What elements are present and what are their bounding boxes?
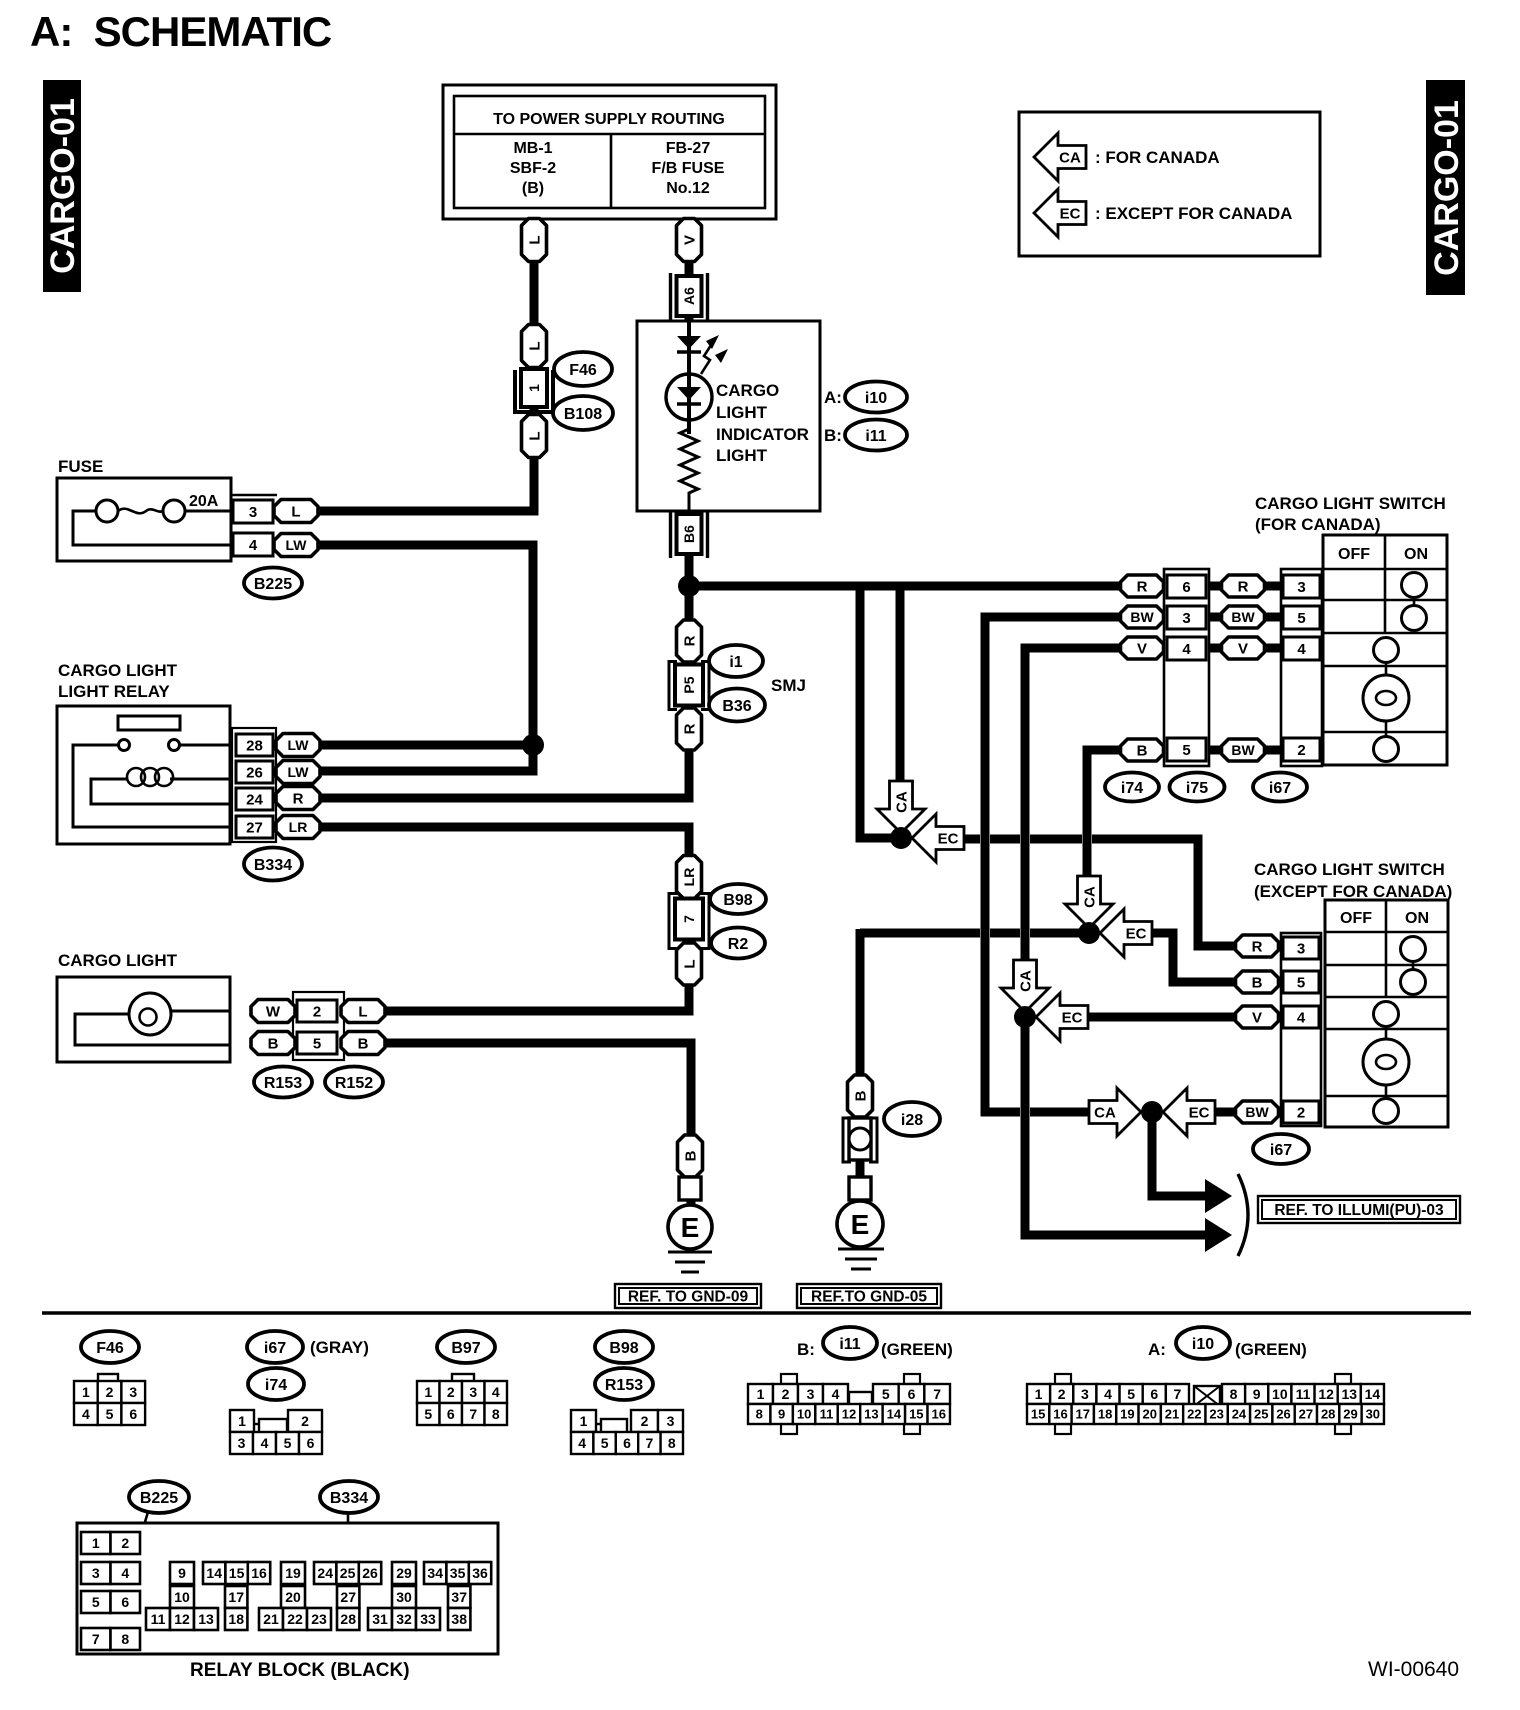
svg-text:11: 11: [151, 1611, 166, 1627]
svg-text:LW: LW: [286, 537, 308, 553]
svg-text:CARGO LIGHT: CARGO LIGHT: [58, 661, 178, 680]
wire LW fuse to relay pins 28/26: [316, 545, 533, 771]
svg-text:8: 8: [1230, 1386, 1238, 1402]
svg-text:CARGO LIGHT SWITCH: CARGO LIGHT SWITCH: [1255, 494, 1446, 513]
wire L from power supply down to fuse: [316, 219, 534, 511]
wire canada switch BW to CA arrow seg2: [1030, 1108, 1097, 1117]
svg-text:L: L: [291, 503, 300, 520]
ref box GND-09: [615, 1284, 761, 1308]
capsule B switch2: [1236, 971, 1279, 993]
svg-text:28: 28: [246, 737, 263, 754]
fuse element 20A: [73, 493, 231, 545]
svg-text:19: 19: [1120, 1407, 1134, 1422]
svg-text:6: 6: [129, 1406, 137, 1422]
svg-text:9: 9: [1253, 1386, 1261, 1402]
capsule L at fuse: [274, 500, 318, 523]
connector B98 pinout: [571, 1410, 683, 1454]
CA arrow at node C: [1001, 960, 1049, 1012]
svg-text:(B): (B): [522, 180, 544, 197]
svg-text:: EXCEPT FOR CANADA: : EXCEPT FOR CANADA: [1095, 204, 1292, 223]
svg-text:R: R: [293, 790, 304, 807]
oval i74 legend: [248, 1368, 304, 1400]
svg-text:14: 14: [206, 1565, 222, 1581]
oval B334 ref: [244, 848, 302, 881]
wire node C down to illumi arrow 2: [1025, 1017, 1205, 1235]
wire node B EC to except-canada switch R seg4: [1092, 839, 1237, 946]
svg-text:i67: i67: [264, 1340, 286, 1357]
svg-text:SBF-2: SBF-2: [510, 160, 556, 177]
svg-text:i28: i28: [901, 1112, 923, 1129]
connector capsule R above SMJ: [677, 620, 702, 662]
svg-text:10: 10: [1272, 1386, 1288, 1402]
svg-text:i10: i10: [865, 390, 887, 407]
svg-text:R: R: [681, 635, 698, 646]
svg-text:26: 26: [362, 1565, 378, 1581]
cargo light bulb and wiring: [75, 993, 231, 1045]
svg-text:20: 20: [1142, 1407, 1156, 1422]
svg-text:i11: i11: [839, 1336, 860, 1353]
svg-text:5: 5: [882, 1386, 890, 1402]
oval i10 ref: [845, 382, 907, 413]
svg-text:2: 2: [447, 1384, 455, 1400]
wire node E EC to except-canada switch BW: [1213, 1108, 1237, 1117]
svg-text:F/B FUSE: F/B FUSE: [652, 160, 725, 177]
svg-text:CARGO LIGHT SWITCH: CARGO LIGHT SWITCH: [1254, 860, 1445, 879]
i67 pin column frame: [1281, 569, 1322, 766]
stub wires i75 to middle capsules: [1205, 582, 1225, 591]
wire node C EC to except-canada switch V: [1088, 1013, 1237, 1022]
EC arrow at node C: [1036, 993, 1088, 1041]
wire bus branch through CA arrow to node B: [896, 586, 905, 788]
svg-text:2: 2: [313, 1003, 321, 1020]
connector capsule L below F46: [522, 415, 547, 458]
oval F46 legend: [81, 1331, 139, 1363]
svg-text:(GRAY): (GRAY): [310, 1338, 369, 1357]
svg-text:A6: A6: [681, 287, 697, 305]
capsule R relay 24: [276, 787, 320, 810]
svg-text:No.12: No.12: [666, 180, 710, 197]
relay block cells: [81, 1532, 491, 1650]
svg-text:18: 18: [228, 1611, 244, 1627]
line B334 to relay block: [347, 1513, 350, 1562]
svg-text:CA: CA: [1018, 970, 1035, 992]
svg-text:4: 4: [82, 1406, 90, 1422]
svg-text:6: 6: [121, 1594, 129, 1610]
svg-text:i74: i74: [1121, 780, 1143, 797]
svg-text:R: R: [681, 723, 698, 734]
svg-text:SMJ: SMJ: [771, 676, 806, 695]
i75 pin 4: [1167, 637, 1206, 660]
svg-text:CA: CA: [1094, 1105, 1116, 1122]
svg-text:CARGO LIGHT: CARGO LIGHT: [58, 951, 178, 970]
capsule B switch1: [1121, 739, 1164, 761]
svg-text:7: 7: [92, 1631, 100, 1647]
oval i67 ref switch2: [1253, 1134, 1309, 1164]
svg-text:12: 12: [1318, 1386, 1334, 1402]
wire node D left toward ground GND-05 seg3: [1030, 929, 1083, 938]
svg-text:R: R: [1137, 578, 1148, 595]
svg-text:CA: CA: [894, 791, 911, 813]
svg-text:(FOR CANADA): (FOR CANADA): [1255, 515, 1381, 534]
svg-text:INDICATOR: INDICATOR: [716, 425, 809, 444]
svg-text:1: 1: [92, 1535, 100, 1551]
svg-text:EC: EC: [1060, 206, 1081, 223]
svg-text:6: 6: [1182, 579, 1190, 596]
svg-text:4: 4: [261, 1435, 269, 1451]
svg-text:R: R: [1238, 578, 1249, 595]
svg-text:15: 15: [229, 1565, 245, 1581]
svg-text:17: 17: [1076, 1407, 1090, 1422]
svg-text:CA: CA: [1082, 886, 1099, 908]
svg-text:11: 11: [820, 1407, 834, 1422]
svg-text:3: 3: [1297, 579, 1305, 596]
ground connector box GND-05: [849, 1177, 871, 1200]
wire node B EC to except-canada switch R seg3: [1030, 835, 1082, 844]
junction node E: [1141, 1101, 1163, 1123]
ground connector box GND-09: [679, 1177, 701, 1200]
oval R2 ref: [711, 928, 765, 959]
svg-text:L: L: [526, 235, 543, 244]
capsule BW switch2: [1236, 1101, 1279, 1123]
svg-text:(GREEN): (GREEN): [881, 1340, 953, 1359]
svg-text:1: 1: [580, 1413, 588, 1429]
relay pin 26: [236, 761, 273, 783]
oval i75 ref: [1170, 773, 1225, 802]
wire node E down to illumi arrow 1: [1152, 1112, 1205, 1196]
svg-text:i75: i75: [1186, 780, 1208, 797]
connector capsule L to cargo light: [677, 943, 702, 985]
capsule B cargo light left: [251, 1032, 295, 1055]
fuse pin 3: [233, 500, 273, 523]
oval B334 legend: [320, 1481, 378, 1513]
svg-text:7: 7: [1174, 1386, 1182, 1402]
svg-text:LR: LR: [289, 819, 308, 835]
svg-text:B108: B108: [564, 406, 602, 423]
svg-text:BW: BW: [1245, 1104, 1269, 1120]
svg-text:1: 1: [526, 384, 542, 392]
svg-text:B334: B334: [254, 857, 292, 874]
svg-text:LR: LR: [681, 868, 697, 887]
svg-text:23: 23: [1209, 1407, 1223, 1422]
oval i67 ref: [1253, 773, 1307, 802]
svg-text:27: 27: [1299, 1407, 1313, 1422]
svg-text:6: 6: [623, 1435, 631, 1451]
svg-text:R2: R2: [728, 936, 749, 953]
svg-text:EC: EC: [1126, 926, 1147, 943]
svg-text:29: 29: [396, 1565, 412, 1581]
junction node B: [890, 827, 912, 849]
svg-text:5: 5: [424, 1406, 432, 1422]
svg-text:4: 4: [249, 537, 258, 554]
svg-text:P5: P5: [681, 676, 697, 693]
svg-text:24: 24: [317, 1565, 333, 1581]
svg-text:27: 27: [340, 1589, 356, 1605]
switch2 pin 4: [1283, 1006, 1319, 1028]
svg-text:F46: F46: [569, 362, 597, 379]
svg-text:14: 14: [1365, 1386, 1381, 1402]
svg-text:21: 21: [1165, 1407, 1179, 1422]
svg-text:8: 8: [121, 1631, 129, 1647]
svg-text:CA: CA: [1059, 150, 1081, 167]
svg-text:24: 24: [246, 791, 263, 808]
svg-text:RELAY BLOCK (BLACK): RELAY BLOCK (BLACK): [190, 1660, 410, 1681]
svg-text:34: 34: [427, 1565, 443, 1581]
svg-text:L: L: [526, 341, 543, 350]
relay coil: [127, 768, 145, 786]
svg-text:B98: B98: [609, 1340, 638, 1357]
svg-text:REF. TO GND-09: REF. TO GND-09: [628, 1289, 749, 1306]
ground connector i28: [843, 1118, 877, 1162]
svg-text:1: 1: [238, 1413, 246, 1429]
svg-text:BW: BW: [1231, 742, 1255, 758]
svg-text:B36: B36: [722, 698, 751, 715]
svg-text:TO POWER SUPPLY ROUTING: TO POWER SUPPLY ROUTING: [493, 111, 725, 128]
connector B6: [671, 511, 708, 558]
svg-text:V: V: [1137, 640, 1147, 657]
svg-text:14: 14: [887, 1407, 902, 1422]
oval B36: [709, 689, 765, 722]
svg-text:16: 16: [251, 1565, 267, 1581]
svg-text:5: 5: [313, 1035, 321, 1052]
oval i11 ref: [845, 420, 907, 451]
i75 pin column frame: [1164, 569, 1209, 766]
connector capsule L above F46: [522, 325, 547, 368]
ground symbol E GND-05: [837, 1201, 884, 1269]
svg-text:31: 31: [372, 1611, 388, 1627]
svg-text:B:: B:: [824, 426, 842, 445]
svg-text:36: 36: [472, 1565, 488, 1581]
wire indicator box to B6 to junction node A: [685, 508, 694, 586]
svg-text:13: 13: [198, 1611, 214, 1627]
svg-text:: FOR CANADA: : FOR CANADA: [1095, 148, 1220, 167]
junction node C: [1014, 1006, 1036, 1028]
indicator resistor: [680, 420, 698, 511]
oval B108: [553, 396, 613, 430]
svg-text:A:: A:: [824, 388, 842, 407]
svg-text:3: 3: [92, 1565, 100, 1581]
illumi paren: [1238, 1174, 1248, 1256]
svg-text:8: 8: [756, 1407, 763, 1422]
svg-text:CARGO-01: CARGO-01: [1428, 100, 1466, 276]
svg-text:1: 1: [757, 1386, 765, 1402]
svg-text:BW: BW: [1231, 609, 1255, 625]
svg-text:i11: i11: [865, 428, 886, 445]
fuse box: [57, 478, 231, 561]
capsule B ground GND-09: [678, 1135, 703, 1177]
wire canada switch B down to CA arrow: [1087, 750, 1122, 879]
oval B225 legend: [129, 1481, 189, 1513]
capsule BW switch1 right: [1222, 606, 1265, 628]
svg-text:22: 22: [1187, 1407, 1201, 1422]
svg-text:3: 3: [249, 504, 257, 521]
svg-text:8: 8: [668, 1435, 676, 1451]
svg-text:3: 3: [469, 1384, 477, 1400]
oval i1: [709, 645, 763, 677]
svg-text:3: 3: [238, 1435, 246, 1451]
illumi arrowhead 2: [1205, 1218, 1232, 1252]
svg-text:9: 9: [778, 1407, 785, 1422]
connector i10 pinout: [1027, 1374, 1384, 1434]
svg-text:28: 28: [340, 1611, 356, 1627]
SMJ connector P5: [669, 662, 709, 710]
oval i74 ref: [1105, 773, 1159, 802]
svg-text:A:: A:: [1148, 1340, 1166, 1359]
wire node B EC to except-canada switch R seg2: [990, 835, 1020, 844]
svg-text:L: L: [526, 431, 543, 440]
wire bus branch down to CA/EC node B: [860, 586, 895, 838]
wire relay pin 27 LR down to cargo light connector: [318, 827, 689, 1011]
connector F46 pinout: [74, 1374, 145, 1425]
capsule V switch2: [1236, 1006, 1279, 1028]
svg-text:5: 5: [284, 1435, 292, 1451]
svg-text:15: 15: [909, 1407, 923, 1422]
svg-text:i74: i74: [265, 1377, 287, 1394]
svg-text:5: 5: [1297, 974, 1305, 991]
svg-text:R153: R153: [605, 1377, 643, 1394]
svg-text:B: B: [852, 1090, 869, 1101]
svg-text:5: 5: [106, 1406, 114, 1422]
EC arrow at node B: [912, 814, 964, 862]
svg-text:R153: R153: [264, 1075, 302, 1092]
relay pin 27: [236, 816, 273, 838]
LED diode D1: [677, 336, 701, 352]
svg-text:12: 12: [842, 1407, 856, 1422]
capsule LW at fuse: [274, 534, 318, 557]
svg-text:3: 3: [1297, 940, 1305, 957]
oval B97 legend: [437, 1331, 495, 1363]
line B225 to relay block: [133, 1512, 148, 1562]
svg-text:2: 2: [782, 1386, 790, 1402]
oval i11 legend: [823, 1327, 877, 1359]
svg-text:30: 30: [396, 1589, 412, 1605]
svg-text:B225: B225: [140, 1490, 178, 1507]
ref box GND-05: [797, 1284, 941, 1308]
svg-text:B: B: [268, 1035, 279, 1052]
svg-text:E: E: [851, 1209, 870, 1240]
svg-text:L: L: [681, 959, 698, 968]
cargo light box: [57, 977, 230, 1062]
svg-text:1: 1: [1035, 1386, 1043, 1402]
capsule R switch2: [1236, 935, 1279, 957]
svg-text:4: 4: [1297, 641, 1306, 658]
illumi arrowhead 1: [1205, 1179, 1232, 1213]
wire node D left toward ground GND-05 seg2: [990, 929, 1020, 938]
svg-text:20: 20: [285, 1589, 301, 1605]
connector capsule V below power supply: [677, 219, 702, 262]
svg-text:11: 11: [1296, 1386, 1311, 1402]
svg-text:3: 3: [1081, 1386, 1089, 1402]
svg-text:6: 6: [908, 1386, 916, 1402]
stub wires capsules to i67: [1265, 582, 1284, 591]
capsule BW switch1 right b: [1222, 739, 1265, 761]
oval R153 ref: [254, 1067, 312, 1098]
svg-text:1: 1: [82, 1384, 90, 1400]
fuse pin 4: [233, 533, 273, 556]
svg-text:37: 37: [451, 1589, 467, 1605]
wire relay pin 28 LW to junction: [318, 741, 533, 750]
left CARGO-01 banner: [43, 80, 82, 292]
svg-text:12: 12: [174, 1611, 190, 1627]
svg-text:33: 33: [420, 1611, 436, 1627]
svg-text:20A: 20A: [189, 493, 219, 510]
svg-text:18: 18: [1098, 1407, 1112, 1422]
switch2 table: [1325, 900, 1448, 1127]
capsule V switch1: [1121, 637, 1164, 659]
relay box: [57, 706, 230, 844]
svg-text:V: V: [1238, 640, 1248, 657]
svg-text:L: L: [358, 1003, 367, 1020]
EC arrow at node D: [1100, 909, 1152, 957]
relay pin 24: [236, 788, 273, 810]
svg-text:LIGHT: LIGHT: [716, 403, 768, 422]
wire A6 to indicator box: [685, 316, 694, 324]
junction LW node: [522, 734, 544, 756]
svg-text:24: 24: [1232, 1407, 1247, 1422]
svg-text:F46: F46: [96, 1340, 124, 1357]
wire main bus junction A to cargo light switch R: [689, 582, 1122, 591]
svg-text:6: 6: [447, 1406, 455, 1422]
svg-text:A: SCHEMATIC: A: SCHEMATIC: [30, 8, 332, 55]
svg-text:E: E: [681, 1212, 700, 1243]
svg-text:FB-27: FB-27: [666, 140, 711, 157]
svg-text:2: 2: [1058, 1386, 1066, 1402]
connector B97 pinout: [417, 1374, 507, 1425]
connector A6: [671, 273, 708, 320]
capsule BW switch1: [1121, 606, 1164, 628]
svg-text:i67: i67: [1269, 780, 1291, 797]
svg-text:B:: B:: [797, 1340, 815, 1359]
legend EC arrow: [1034, 189, 1086, 237]
capsule B cargo light right: [341, 1032, 385, 1055]
connector capsule LR: [677, 856, 702, 899]
capsule R switch1 right: [1222, 575, 1265, 597]
i75 pin 3: [1167, 606, 1206, 629]
svg-text:4: 4: [1182, 641, 1191, 658]
oval B225 ref: [244, 568, 302, 599]
i67 pin 4: [1283, 637, 1320, 660]
svg-text:LIGHT: LIGHT: [716, 446, 768, 465]
CA arrow at node E: [1089, 1088, 1141, 1136]
svg-text:OFF: OFF: [1338, 546, 1370, 563]
svg-text:1: 1: [424, 1384, 432, 1400]
svg-text:4: 4: [578, 1435, 586, 1451]
wire SMJ chain junction to R capsules: [685, 586, 694, 700]
capsule LW relay 26: [276, 761, 320, 784]
svg-text:13: 13: [864, 1407, 878, 1422]
svg-text:6: 6: [307, 1435, 315, 1451]
svg-text:28: 28: [1321, 1407, 1335, 1422]
cargo light pin 5: [297, 1032, 337, 1054]
svg-text:21: 21: [263, 1611, 279, 1627]
capsule L cargo light right: [341, 1000, 385, 1023]
svg-text:26: 26: [246, 764, 263, 781]
svg-text:13: 13: [1341, 1386, 1357, 1402]
svg-text:WI-00640: WI-00640: [1368, 1658, 1459, 1681]
wire V power supply to A6: [685, 219, 694, 280]
capsule V switch1 right: [1222, 637, 1265, 659]
cargo light indicator light box: [637, 321, 820, 511]
svg-text:29: 29: [1343, 1407, 1357, 1422]
svg-text:LW: LW: [288, 764, 310, 780]
svg-text:BW: BW: [1130, 609, 1154, 625]
svg-text:LIGHT RELAY: LIGHT RELAY: [58, 682, 170, 701]
svg-text:7: 7: [646, 1435, 654, 1451]
oval R153 legend: [595, 1368, 653, 1400]
svg-text:3: 3: [129, 1384, 137, 1400]
svg-text:5: 5: [1127, 1386, 1135, 1402]
svg-text:19: 19: [285, 1565, 301, 1581]
svg-text:B6: B6: [681, 525, 697, 543]
